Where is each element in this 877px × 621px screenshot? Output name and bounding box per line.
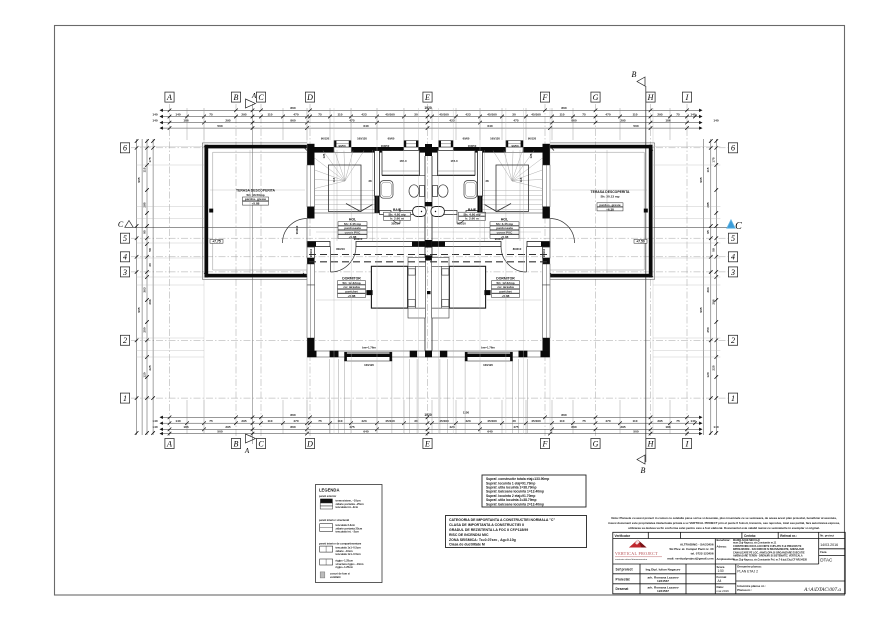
toilet right — [433, 185, 449, 197]
svg-text:110: 110 — [633, 112, 638, 116]
svg-text:RISC DE INCENDIU MIC: RISC DE INCENDIU MIC — [449, 533, 489, 537]
svg-text:B: B — [641, 466, 646, 475]
small level box terrace left — [210, 239, 223, 243]
svg-text:Ing.Dipl. Iulian Nagacev: Ing.Dipl. Iulian Nagacev — [646, 568, 681, 572]
svg-text:1234567: 1234567 — [657, 579, 669, 583]
svg-text:1:50: 1:50 — [718, 569, 724, 573]
svg-text:CLASA DE IMPORTANTA A CONSTRUC: CLASA DE IMPORTANTA A CONSTRUCTIEI II — [449, 523, 524, 527]
svg-text:160/50: 160/50 — [468, 144, 477, 148]
svg-text:640: 640 — [487, 124, 492, 128]
svg-text:250: 250 — [706, 327, 710, 332]
svg-text:I: I — [685, 439, 689, 448]
svg-text:45/160: 45/160 — [385, 112, 395, 116]
svg-text:475: 475 — [349, 119, 354, 123]
svg-text:140: 140 — [690, 419, 695, 423]
svg-text:470: 470 — [293, 112, 298, 116]
svg-text:2: 2 — [123, 336, 127, 345]
svg-text:construim viitorul dumneavoast: construim viitorul dumneavoastra — [615, 558, 648, 561]
door bath left — [391, 215, 400, 224]
toilet left — [409, 185, 425, 197]
svg-text:tencuiala int.~2cm: tencuiala int.~2cm — [336, 505, 359, 509]
wall between stair and bath left — [375, 151, 380, 213]
svg-text:45/160: 45/160 — [385, 419, 395, 423]
west exterior wall left unit — [307, 144, 315, 357]
svg-text:35/210: 35/210 — [391, 222, 400, 226]
title block frame — [613, 532, 845, 594]
bed right bedroom — [432, 258, 491, 319]
main top exterior wall with protruding window boxes — [307, 141, 429, 153]
svg-text:1: 1 — [731, 394, 735, 403]
svg-text:500: 500 — [217, 430, 222, 434]
svg-text:423: 423 — [361, 112, 366, 116]
label dormitor left — [338, 277, 366, 298]
svg-text:140: 140 — [713, 119, 718, 123]
svg-text:90/210: 90/210 — [354, 237, 363, 241]
svg-text:C: C — [735, 221, 742, 232]
svg-text:75: 75 — [676, 419, 680, 423]
svg-text:423: 423 — [449, 425, 454, 429]
personnel rows — [616, 568, 681, 593]
svg-text:45/160: 45/160 — [439, 112, 449, 116]
svg-text:125: 125 — [322, 153, 326, 158]
svg-text:Adresa:: Adresa: — [717, 545, 727, 549]
svg-text:1: 1 — [123, 394, 127, 403]
svg-text:140: 140 — [152, 112, 157, 116]
label dormitor right — [492, 277, 520, 298]
svg-text:Cerinta:: Cerinta: — [744, 534, 756, 538]
interior witness lines — [250, 150, 607, 273]
svg-text:30: 30 — [512, 112, 516, 116]
svg-text:E: E — [424, 439, 430, 448]
svg-text:A:\A\DTAC\007.a: A:\A\DTAC\007.a — [803, 587, 841, 593]
svg-text:28: 28 — [368, 179, 372, 183]
svg-text:470: 470 — [293, 419, 298, 423]
svg-text:Desenat: Desenat — [616, 587, 630, 591]
east exterior wall right unit — [543, 144, 551, 357]
svg-text:pereti interior structurali: pereti interior structurali — [319, 518, 349, 522]
svg-text:30: 30 — [512, 419, 516, 423]
svg-text:utilizarea sa dedusa va fin co: utilizarea sa dedusa va fin conforma cel… — [628, 526, 820, 530]
svg-text:G: G — [593, 93, 599, 102]
svg-text:110: 110 — [338, 112, 343, 116]
svg-text:5: 5 — [731, 234, 735, 243]
svg-text:58: 58 — [712, 248, 716, 252]
svg-text:640: 640 — [363, 124, 368, 128]
svg-text:110: 110 — [268, 419, 273, 423]
terrace left (TERASA DESCOPERITA) walls — [202, 143, 307, 279]
svg-text:h: 2.60 m: h: 2.60 m — [465, 217, 479, 221]
bath bottom walls — [380, 211, 478, 215]
svg-text:120: 120 — [706, 372, 710, 377]
grid axis vertical lines A-I — [170, 104, 688, 437]
wall between stair and bath right — [478, 151, 483, 213]
svg-text:160/120: 160/120 — [483, 363, 493, 367]
grid axis horizontal lines 1-6 — [131, 148, 729, 398]
svg-text:h: 2.60 m: h: 2.60 m — [390, 217, 404, 221]
svg-text:C: C — [118, 220, 124, 229]
window labels above top wall — [321, 137, 537, 141]
svg-text:Clasa de ductilitate M: Clasa de ductilitate M — [449, 543, 485, 547]
svg-text:tencuiala 1x1~0.5cm: tencuiala 1x1~0.5cm — [336, 552, 362, 556]
svg-text:110: 110 — [560, 419, 565, 423]
svg-text:470: 470 — [605, 419, 610, 423]
svg-text:mun.Cluj-Napoca, str.Constanti: mun.Cluj-Napoca, str.Constantin Pol. nr.… — [733, 559, 808, 562]
svg-text:296: 296 — [712, 299, 716, 304]
svg-text:Verificator: Verificator — [615, 534, 631, 538]
svg-text:140: 140 — [175, 112, 180, 116]
svg-text:I: I — [685, 93, 689, 102]
svg-text:363: 363 — [142, 287, 146, 292]
svg-text:A: A — [166, 93, 172, 102]
svg-text:90/210: 90/210 — [295, 225, 299, 234]
svg-text:insusi document este proprieta: insusi document este proprietatea intele… — [608, 521, 840, 525]
svg-text:295: 295 — [225, 425, 230, 429]
door terrace-hall left — [283, 219, 308, 244]
svg-text:G: G — [593, 439, 599, 448]
svg-text:80/210: 80/210 — [336, 247, 345, 251]
svg-text:90/110: 90/110 — [309, 248, 313, 257]
svg-text:296: 296 — [148, 299, 152, 304]
svg-text:B: B — [234, 439, 239, 448]
svg-text:+7.75: +7.75 — [212, 240, 221, 244]
svg-text:tel. 0722-123456: tel. 0722-123456 — [691, 552, 714, 556]
svg-text:75: 75 — [676, 112, 680, 116]
svg-text:160/50: 160/50 — [381, 144, 390, 148]
svg-text:905: 905 — [699, 177, 703, 182]
svg-text:Faza: Faza — [820, 550, 827, 554]
dimension chain top row4 — [162, 126, 700, 130]
closet right bath — [438, 151, 476, 176]
label baie right — [459, 208, 486, 221]
svg-text:80/210: 80/210 — [513, 247, 522, 251]
svg-text:F: F — [542, 93, 548, 102]
svg-text:3: 3 — [122, 268, 127, 277]
legend box LEGENDA — [316, 485, 383, 583]
svg-text:500: 500 — [633, 430, 638, 434]
bed left bedroom — [366, 258, 425, 319]
svg-text:90/120: 90/120 — [528, 137, 537, 141]
svg-text:LEGENDA: LEGENDA — [319, 488, 339, 493]
section mark B bottom — [637, 455, 646, 475]
svg-text:75: 75 — [209, 419, 213, 423]
svg-text:C: C — [258, 93, 264, 102]
nr proiect and faza — [820, 534, 838, 563]
svg-text:B: B — [632, 70, 637, 79]
central party wall — [425, 144, 432, 357]
svg-text:423: 423 — [465, 419, 470, 423]
door terrace-hall right — [550, 219, 575, 244]
svg-text:+7.50: +7.50 — [636, 240, 645, 244]
svg-text:+5.88: +5.88 — [502, 294, 510, 298]
svg-text:75: 75 — [318, 112, 322, 116]
svg-text:Denumire plansa:: Denumire plansa: — [737, 565, 761, 569]
svg-text:905: 905 — [699, 307, 703, 312]
svg-text:175: 175 — [148, 157, 152, 162]
svg-text:860: 860 — [290, 119, 295, 123]
svg-text:B: B — [234, 93, 239, 102]
small level box terrace right — [634, 239, 647, 243]
interior wall between hall and bedrooms — [307, 242, 550, 247]
dimension witness lines bottom — [187, 359, 670, 434]
scara data cells — [717, 565, 730, 593]
svg-text:GRADUL DE REZISTENTA LA FOC II: GRADUL DE REZISTENTA LA FOC II CF.P118/9… — [449, 528, 528, 532]
svg-text:Supraf. balcoane locuinta 2=13: Supraf. balcoane locuinta 2=13.40mp — [486, 502, 544, 506]
svg-text:860: 860 — [561, 106, 566, 110]
svg-text:295: 295 — [620, 425, 625, 429]
svg-text:pereti interior de compartimen: pereti interior de compartimentare — [319, 542, 362, 546]
svg-text:110: 110 — [633, 419, 638, 423]
svg-text:35/210: 35/210 — [457, 222, 466, 226]
section mark C left — [118, 220, 133, 229]
label hol right — [490, 218, 519, 239]
svg-text:140: 140 — [175, 419, 180, 423]
svg-text:470: 470 — [605, 112, 610, 116]
grid bubbles bottom row — [165, 439, 174, 449]
svg-text:110: 110 — [338, 419, 343, 423]
svg-text:F: F — [542, 439, 548, 448]
window labels below bottom wall — [364, 363, 493, 367]
svg-text:bm=1.76m: bm=1.76m — [362, 346, 376, 350]
svg-text:58: 58 — [148, 248, 152, 252]
dimension chain top row2 — [162, 115, 700, 119]
svg-text:860: 860 — [290, 106, 295, 110]
label hol left — [338, 218, 367, 239]
beneficiar details — [717, 538, 808, 561]
svg-text:1234567: 1234567 — [657, 589, 669, 593]
svg-text:A: A — [244, 447, 250, 455]
svg-text:ZONA SEISMICA: Tc=0.07sec , Ag: ZONA SEISMICA: Tc=0.07sec , Ag=0.10g — [449, 538, 516, 542]
bathtub right — [464, 181, 477, 199]
svg-text:95: 95 — [142, 230, 146, 234]
svg-text:165.0: 165.0 — [400, 159, 407, 163]
svg-text:rigips~1.25cm: rigips~1.25cm — [336, 565, 354, 569]
svg-text:120: 120 — [142, 372, 146, 377]
svg-text:Proiectat: Proiectat — [616, 577, 631, 581]
svg-text:1150: 1150 — [463, 411, 470, 415]
stair bottom edge lines — [315, 212, 380, 214]
horizontal witness lines to side chains — [137, 147, 721, 358]
svg-text:bm=1.76m: bm=1.76m — [481, 346, 495, 350]
svg-text:175: 175 — [712, 157, 716, 162]
dimension chain bottom row1 — [162, 416, 700, 420]
svg-text:295: 295 — [620, 119, 625, 123]
svg-text:860: 860 — [561, 413, 566, 417]
grid bubbles right column — [728, 143, 737, 153]
svg-text:140: 140 — [152, 119, 157, 123]
svg-text:6: 6 — [731, 144, 735, 153]
svg-text:ventilatii: ventilatii — [330, 575, 341, 579]
svg-text:75: 75 — [582, 112, 586, 116]
svg-text:1920: 1920 — [424, 106, 432, 110]
svg-text:160/120: 160/120 — [364, 363, 374, 367]
svg-text:Str.Plev. al. Campul Pacii nr.: Str.Plev. al. Campul Pacii nr. 30 — [669, 547, 713, 551]
svg-text:1920: 1920 — [424, 413, 432, 417]
door hall-bedroom right — [501, 247, 527, 273]
svg-text:45/160: 45/160 — [487, 112, 497, 116]
dimension chain bottom row3 — [162, 428, 700, 432]
svg-text:mail: verticalproject@gmail.co: mail: verticalproject@gmail.com — [667, 556, 713, 560]
svg-text:Beneficiar:: Beneficiar: — [717, 538, 731, 542]
chain end markers top — [160, 109, 703, 130]
long vertical witness lines — [204, 108, 653, 434]
south exterior wall with windows — [307, 351, 550, 361]
category of importance text box — [446, 516, 587, 548]
svg-text:475: 475 — [513, 425, 518, 429]
svg-text:225: 225 — [712, 365, 716, 370]
svg-text:3: 3 — [730, 268, 735, 277]
svg-text:PLAN ETAJ 2: PLAN ETAJ 2 — [737, 569, 758, 573]
svg-text:640: 640 — [363, 430, 368, 434]
svg-text:A: A — [251, 92, 257, 100]
dimension chain bottom row4 — [162, 432, 700, 436]
svg-text:475: 475 — [513, 119, 518, 123]
svg-text:295: 295 — [657, 112, 662, 116]
svg-text:D: D — [306, 93, 313, 102]
svg-text:90/50: 90/50 — [512, 144, 519, 148]
door hall-bedroom left — [331, 247, 357, 273]
svg-text:mai 2016: mai 2016 — [717, 589, 730, 593]
svg-text:+5.88: +5.88 — [348, 294, 356, 298]
svg-text:CATEGORIA DE IMPORTANTA A CONS: CATEGORIA DE IMPORTANTA A CONSTRUCTIEI N… — [449, 518, 555, 522]
closet front lines bath — [382, 175, 425, 177]
svg-text:+6.38: +6.38 — [606, 207, 614, 211]
dimension chain top row3 — [162, 121, 700, 125]
door bath right — [457, 215, 466, 224]
dimension chain top row1 — [162, 109, 700, 113]
section mark C right (cyan) — [727, 220, 742, 232]
svg-text:A4: A4 — [718, 579, 722, 583]
svg-text:186: 186 — [183, 119, 188, 123]
svg-text:Sef proiect: Sef proiect — [616, 568, 634, 572]
svg-text:640: 640 — [487, 430, 492, 434]
company address block — [667, 543, 713, 561]
svg-text:AMENAJARE TEREN - DRENURI SI S: AMENAJARE TEREN - DRENURI SI SISTEMATIZ.… — [733, 555, 803, 558]
svg-text:E: E — [424, 93, 430, 102]
svg-text:75: 75 — [582, 419, 586, 423]
dimension chains right — [699, 139, 718, 435]
svg-text:45/160: 45/160 — [487, 419, 497, 423]
svg-text:225: 225 — [148, 365, 152, 370]
svg-text:DTAC: DTAC — [820, 558, 833, 563]
section line C-C horizontal — [133, 226, 727, 228]
svg-text:95: 95 — [706, 230, 710, 234]
section line B-B vertical — [645, 86, 647, 462]
dimension chains left — [135, 139, 155, 435]
svg-text:475: 475 — [349, 425, 354, 429]
svg-text:500: 500 — [633, 124, 638, 128]
svg-text:90/210: 90/210 — [495, 237, 504, 241]
svg-text:295: 295 — [241, 419, 246, 423]
svg-text:125: 125 — [529, 153, 533, 158]
svg-text:250: 250 — [142, 327, 146, 332]
svg-text:295: 295 — [225, 119, 230, 123]
tiny wall hatch marks terrace corners — [204, 147, 653, 278]
svg-text:60/60: 60/60 — [388, 137, 395, 141]
svg-text:A: A — [166, 439, 172, 448]
svg-text:60/60: 60/60 — [463, 137, 470, 141]
door-window size labels — [295, 144, 546, 350]
svg-text:30: 30 — [414, 112, 418, 116]
svg-text:4: 4 — [731, 253, 735, 262]
chain end markers bottom — [160, 416, 703, 436]
svg-text:tencuiala int. ~2cm: tencuiala int. ~2cm — [336, 530, 360, 534]
svg-text:75: 75 — [209, 112, 213, 116]
svg-text:+5.88: +5.88 — [252, 202, 260, 206]
svg-text:295: 295 — [241, 112, 246, 116]
svg-text:110: 110 — [560, 112, 565, 116]
svg-text:295: 295 — [657, 419, 662, 423]
title block verificator strip texts — [615, 534, 798, 538]
terrace right (TERASA DESCOPERITA) walls — [550, 143, 655, 279]
svg-text:115: 115 — [706, 167, 710, 172]
svg-text:423: 423 — [465, 112, 470, 116]
bathtub left — [380, 181, 393, 199]
svg-text:Nr. proiect: Nr. proiect — [820, 534, 834, 538]
closet left bath — [382, 151, 420, 176]
dimension numbers top — [152, 106, 718, 128]
svg-text:160/120: 160/120 — [357, 137, 367, 141]
svg-text:90/110: 90/110 — [542, 248, 546, 257]
svg-text:110: 110 — [268, 112, 273, 116]
svg-text:423: 423 — [449, 119, 454, 123]
plan name cell — [737, 565, 841, 594]
svg-text:500: 500 — [217, 124, 222, 128]
svg-text:4: 4 — [123, 253, 127, 262]
svg-text:860: 860 — [571, 425, 576, 429]
svg-text:423: 423 — [361, 419, 366, 423]
svg-text:115: 115 — [142, 167, 146, 172]
svg-text:860: 860 — [290, 425, 295, 429]
interior faint dimension lines — [210, 190, 647, 300]
dashed overhang lines — [309, 255, 548, 262]
grid bubbles left column — [120, 143, 129, 153]
dimension numbers bottom — [152, 411, 718, 434]
svg-text:ALTRADING - SA/23456: ALTRADING - SA/23456 — [680, 543, 714, 547]
svg-text:75: 75 — [318, 419, 322, 423]
label baie left — [384, 208, 411, 221]
svg-text:45/160: 45/160 — [439, 419, 449, 423]
svg-text:45/160: 45/160 — [531, 419, 541, 423]
svg-text:140: 140 — [690, 112, 695, 116]
svg-text:45/160: 45/160 — [531, 112, 541, 116]
svg-text:90/50: 90/50 — [339, 144, 346, 148]
svg-text:860: 860 — [290, 413, 295, 417]
svg-text:30: 30 — [414, 419, 418, 423]
svg-text:C: C — [258, 439, 264, 448]
svg-text:Nota: Plansele cu acest proiec: Nota: Plansele cu acest proiect in comun… — [611, 516, 836, 520]
svg-text:VERTICAL PROJECT: VERTICAL PROJECT — [615, 551, 658, 556]
section mark B top — [632, 70, 645, 86]
company logo red triangle — [629, 540, 647, 548]
svg-text:2: 2 — [731, 336, 735, 345]
shower tray left — [413, 207, 427, 217]
section mark A bottom — [244, 434, 256, 455]
svg-text:160/120: 160/120 — [490, 137, 500, 141]
svg-text:186: 186 — [183, 425, 188, 429]
svg-text:30: 30 — [148, 263, 152, 267]
svg-text:Referat nr.:: Referat nr.: — [780, 534, 797, 538]
svg-text:D: D — [306, 439, 313, 448]
copyright note text — [608, 516, 840, 530]
svg-text:pereti exterior: pereti exterior — [319, 494, 336, 498]
svg-text:14/03.2016: 14/03.2016 — [820, 543, 838, 547]
company name VERTICAL PROJECT — [615, 551, 662, 561]
svg-text:5: 5 — [123, 234, 127, 243]
section mark A top — [246, 92, 257, 108]
svg-text:165.0: 165.0 — [451, 159, 458, 163]
svg-text:90/120: 90/120 — [321, 137, 330, 141]
svg-text:28: 28 — [485, 179, 489, 183]
